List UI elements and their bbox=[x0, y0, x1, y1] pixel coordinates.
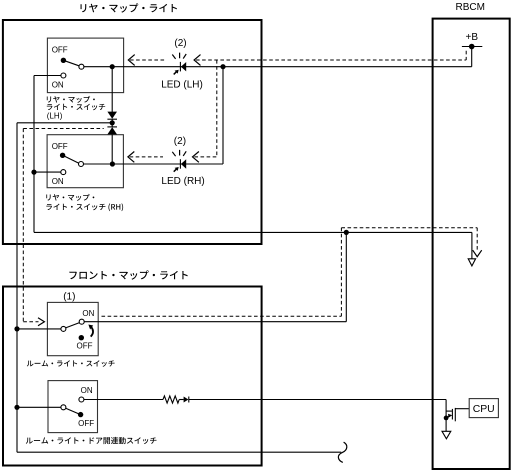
svg-text:OFF: OFF bbox=[52, 45, 68, 54]
LED (LH) cathode bar bbox=[179, 62, 181, 72]
LH switch lever wire bbox=[63, 60, 79, 66]
label text: ルーム・ライト・スイッチ bbox=[27, 360, 115, 366]
room light switch box bbox=[47, 302, 98, 355]
svg-text:OFF: OFF bbox=[78, 419, 94, 428]
svg-text:(2): (2) bbox=[174, 136, 186, 147]
momentary return curved arrow bbox=[91, 327, 93, 337]
room light switch common contact bbox=[61, 326, 66, 331]
transistor Q1 gate bar bbox=[451, 409, 453, 420]
rear map light switch (RH) box bbox=[47, 135, 123, 188]
junction: ground trunk tap for door switch bbox=[14, 405, 19, 410]
svg-text:(2): (2) bbox=[174, 38, 186, 49]
wire: diode junction bbox=[111, 119, 113, 127]
wire: ground trunk down left side bbox=[16, 123, 18, 452]
svg-text:LED (LH): LED (LH) bbox=[161, 80, 203, 91]
transistor Q1 channel bar bbox=[454, 408, 456, 421]
LH switch pivot contact bbox=[79, 64, 84, 69]
wire: trunk to door switch common bbox=[17, 406, 61, 408]
wire: LH switch node down to diode pair bbox=[111, 67, 113, 112]
door switch common contact bbox=[61, 405, 66, 410]
junction: RH ON tap bbox=[31, 170, 36, 175]
junction: diode common node bbox=[110, 120, 115, 125]
door switch lever wire bbox=[66, 408, 81, 414]
dashed current-flow arrow toward LED (RH) bbox=[193, 152, 199, 163]
junction: LH switch output node bbox=[110, 64, 115, 69]
dashed flow drop from +B bbox=[465, 51, 467, 60]
label text: リヤ・マップ・ bbox=[46, 194, 94, 201]
svg-text:RBCM: RBCM bbox=[456, 2, 485, 13]
room light door-linked switch box bbox=[48, 381, 98, 433]
diode D1 (from LH switch, pointing down) bbox=[107, 112, 117, 119]
label text: ルーム・ライト・ドア開連動スイッチ bbox=[26, 437, 157, 444]
svg-text:ON: ON bbox=[52, 80, 64, 89]
wire: vertical tie from LED(LH) line down to LED(RH) line bbox=[222, 67, 224, 164]
junction: node joining LED(LH) and LED(RH) feed bbox=[220, 64, 225, 69]
junction: source node bbox=[444, 416, 449, 421]
wire: diode to RBCM transistor gate bbox=[189, 399, 446, 401]
LED (RH) diode triangle bbox=[181, 159, 186, 168]
dashed flow branch down to LED(RH) row bbox=[216, 60, 218, 157]
door switch OFF contact (filled) bbox=[78, 412, 83, 417]
RBCM module box bbox=[433, 19, 510, 469]
Japanese label outlines (vector text) bbox=[26, 3, 188, 444]
LED (RH) cathode bar bbox=[179, 159, 181, 169]
transistor Q1 gate lead bbox=[445, 400, 447, 432]
ground symbol (open arrow) bbox=[442, 431, 451, 439]
rear map light switch (LH) box bbox=[47, 38, 123, 93]
RH switch ON contact bbox=[61, 170, 66, 175]
wire: ground trunk along bottom bbox=[17, 451, 341, 453]
LED (LH) light rays bbox=[172, 53, 186, 59]
door switch ON contact bbox=[79, 397, 84, 402]
rear map light enclosure box (リヤ・マップ・ライト) bbox=[3, 20, 262, 244]
wire break squiggle bbox=[338, 442, 346, 462]
wire: diode common node to left ground trunk bbox=[17, 122, 112, 124]
svg-text:ON: ON bbox=[82, 309, 94, 318]
label text: ライト・スイッチ bbox=[47, 104, 105, 111]
RH switch pivot contact bbox=[79, 162, 84, 167]
svg-text:CPU: CPU bbox=[473, 404, 495, 415]
svg-text:LED (RH): LED (RH) bbox=[161, 176, 204, 187]
wire: room light switch ON to RBCM bbox=[84, 321, 346, 323]
diode D2 (from RH switch, pointing up) bbox=[107, 126, 117, 128]
wire: resistor to diode bbox=[179, 399, 183, 401]
label text: リヤ・マップ・ライト bbox=[81, 3, 177, 12]
CPU box bbox=[469, 399, 498, 418]
front map light enclosure box (フロント・マップ・ライト) bbox=[3, 287, 262, 466]
wire: down to connector arrow inside RBCM bbox=[471, 232, 473, 258]
svg-text:(LH): (LH) bbox=[47, 112, 63, 121]
wire: rear switches ON trunk down bbox=[33, 76, 35, 233]
svg-text:(1): (1) bbox=[63, 291, 75, 302]
dashed current-flow arrow toward LED (LH) bbox=[194, 55, 200, 66]
dashed flow line beside diode node bbox=[23, 128, 103, 130]
label text: ライト・スイッチ (RH) bbox=[46, 203, 123, 211]
transistor Q1 source arrow bbox=[446, 416, 450, 418]
LED (RH) light rays bbox=[172, 150, 186, 156]
svg-text:ON: ON bbox=[52, 177, 64, 186]
open arrow terminal (to body ground circuit) bbox=[468, 259, 475, 266]
wire: LH switch to LED(LH) to +B bbox=[84, 66, 472, 68]
dashed flow: room light feed path bbox=[102, 315, 342, 317]
junction: RH switch output node bbox=[110, 161, 115, 166]
svg-text:+B: +B bbox=[466, 32, 479, 43]
svg-text:OFF: OFF bbox=[52, 142, 68, 151]
wire: RH ON contact to left trunk bbox=[34, 171, 61, 173]
LED (LH) diode triangle bbox=[181, 62, 186, 71]
junction: ground trunk tap for room light switch bbox=[14, 326, 19, 331]
svg-text:OFF: OFF bbox=[77, 342, 93, 351]
RH switch lever wire bbox=[63, 155, 79, 163]
wire: ON trunk across to RBCM bbox=[34, 231, 472, 233]
+B terminal node bbox=[469, 44, 475, 50]
LH switch ON contact bbox=[61, 73, 66, 78]
resistor bbox=[163, 396, 179, 403]
room light switch OFF contact (filled) bbox=[79, 335, 84, 340]
wire: LH ON contact to left trunk bbox=[34, 75, 61, 77]
dashed current-flow arrow into RH switch bbox=[128, 152, 134, 163]
wire: diode pair down to RH switch node bbox=[111, 134, 113, 164]
label text: フロント・マップ・ライト bbox=[69, 270, 187, 279]
room light switch lever wire bbox=[66, 323, 80, 328]
junction: room light switch feed tap bbox=[344, 230, 349, 235]
label text: リヤ・マップ・ bbox=[47, 96, 95, 103]
room light switch ON contact bbox=[79, 319, 84, 324]
RH switch OFF contact (filled) bbox=[60, 153, 65, 158]
LED (RH) activation arrow bbox=[174, 169, 177, 172]
svg-text:ON: ON bbox=[81, 386, 93, 395]
diode D3 (pointing right) bbox=[184, 397, 189, 403]
+B terminal stem bbox=[471, 47, 473, 67]
dashed flow arrow into room light switch bbox=[23, 321, 38, 323]
dashed current-flow arrow into LH switch bbox=[128, 55, 134, 66]
LED (LH) activation arrow bbox=[174, 72, 177, 75]
wire: door switch ON to resistor bbox=[84, 399, 163, 401]
LH switch OFF contact (filled) bbox=[61, 58, 66, 63]
wire: trunk to room light switch common bbox=[17, 328, 61, 330]
transistor Q1 drain to CPU bbox=[455, 408, 469, 410]
dashed flow chevron arrow down bbox=[473, 250, 482, 257]
+B terminal bar bbox=[462, 46, 482, 48]
wire: RH switch to LED(RH) bbox=[84, 163, 224, 165]
dashed flow down left side bbox=[22, 129, 24, 322]
